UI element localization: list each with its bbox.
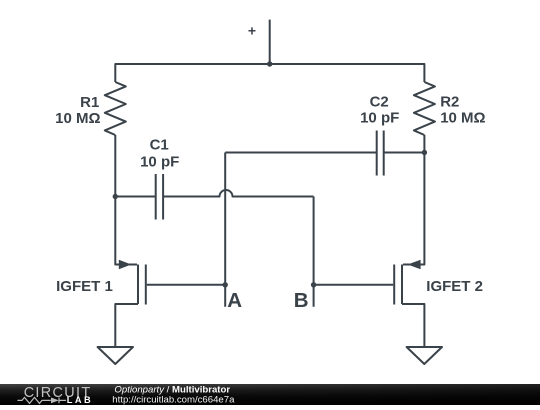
logo diode: [51, 398, 59, 404]
transistor Q2 IGFET 2 source lead: [402, 304, 424, 347]
svg-text:C1: C1: [150, 137, 169, 154]
junction R1 C1 drain node: [113, 194, 118, 199]
svg-text:10 pF: 10 pF: [140, 153, 179, 170]
wire vertical into node B: [313, 197, 315, 307]
footer bar: [0, 384, 540, 405]
wire R1 bottom to IGFET1 drain: [115, 135, 137, 265]
wire IGFET1 gate to node A: [147, 284, 225, 286]
svg-text:C2: C2: [370, 93, 389, 110]
transistor Q1 IGFET 1 source lead: [115, 304, 138, 347]
transistor Q1 IGFET 1 gate bar: [145, 265, 147, 305]
svg-text:R2: R2: [440, 93, 459, 110]
svg-text:R1: R1: [80, 94, 99, 111]
svg-text:http://circuitlab.com/c664e7a: http://circuitlab.com/c664e7a: [112, 394, 235, 405]
transistor Q1 IGFET 1 channel bar: [137, 265, 139, 305]
node B junction: [311, 282, 316, 287]
capacitor C2 plates: [377, 131, 384, 176]
svg-text:10 pF: 10 pF: [360, 109, 399, 126]
wire C2 node A cross wire: [225, 152, 377, 154]
wire R2 bottom to IGFET2 drain: [403, 135, 424, 265]
wire node to C1 left lead: [115, 196, 155, 198]
junction supply rail: [267, 61, 272, 66]
transistor Q2 IGFET 2 channel bar: [401, 265, 403, 305]
svg-text:IGFET 1: IGFET 1: [56, 278, 113, 295]
wire vertical into node A: [224, 153, 226, 307]
svg-text:LAB: LAB: [67, 395, 93, 405]
capacitor C1 plates: [156, 174, 163, 220]
svg-text:10 MΩ: 10 MΩ: [55, 110, 100, 127]
junction R2 C2 drain node: [422, 150, 427, 155]
resistor R1: [105, 82, 126, 135]
ground GND2: [407, 347, 442, 364]
svg-text:IGFET 2: IGFET 2: [426, 278, 483, 295]
wire node B to IGFET2 gate: [314, 284, 394, 286]
svg-text:A: A: [227, 289, 242, 312]
svg-text:B: B: [294, 289, 309, 312]
svg-text:+: +: [248, 22, 256, 38]
resistor R2: [414, 82, 435, 135]
svg-text:10 MΩ: 10 MΩ: [440, 109, 485, 126]
wire C1 right lead with hop over node A wire: [163, 190, 314, 197]
transistor Q2 IGFET 2 gate bar: [393, 265, 395, 305]
transistor Q1 IGFET 1 drain arrow: [119, 260, 131, 270]
transistor Q2 IGFET 2 drain arrow: [408, 260, 421, 270]
node A junction: [223, 282, 228, 287]
logo resistor squiggle: [18, 397, 51, 403]
wire C2 right lead to R2 node: [384, 152, 425, 154]
wire top rail: [115, 64, 424, 82]
ground GND1: [98, 347, 133, 364]
power supply V+ lead: [269, 20, 271, 64]
